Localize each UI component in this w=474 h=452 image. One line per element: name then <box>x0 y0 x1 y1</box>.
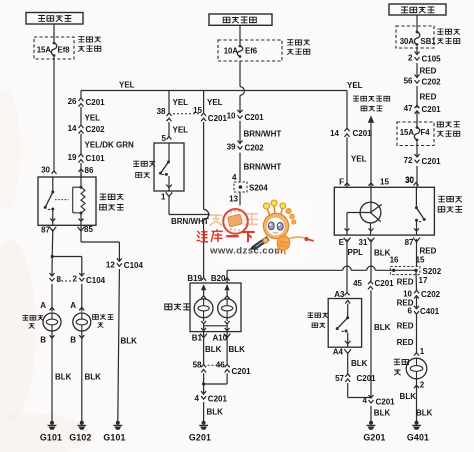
svg-text:G201: G201 <box>363 433 385 443</box>
svg-text:RED: RED <box>397 322 414 331</box>
svg-text:C101: C101 <box>86 154 106 163</box>
svg-text:1: 1 <box>161 193 166 202</box>
svg-text:30A: 30A <box>400 37 415 46</box>
svg-text:16: 16 <box>390 256 399 265</box>
svg-text:BLK: BLK <box>374 323 391 332</box>
svg-text:14: 14 <box>330 129 339 138</box>
svg-text:12: 12 <box>106 261 115 270</box>
svg-text:10A: 10A <box>224 47 239 56</box>
svg-text:87: 87 <box>405 238 414 247</box>
svg-text:A10: A10 <box>213 333 228 342</box>
svg-text:Ef6: Ef6 <box>245 47 258 56</box>
svg-text:56: 56 <box>404 76 413 85</box>
svg-text:C201: C201 <box>357 374 377 383</box>
svg-text:G401: G401 <box>407 433 429 443</box>
svg-text:B20: B20 <box>211 274 226 283</box>
svg-text:YEL: YEL <box>173 126 189 135</box>
svg-text:C201: C201 <box>245 113 265 122</box>
svg-text:YEL: YEL <box>347 81 363 90</box>
svg-text:2: 2 <box>408 53 413 62</box>
svg-text:BLK: BLK <box>55 373 72 382</box>
svg-text:BLK: BLK <box>207 408 224 417</box>
svg-text:Ef8: Ef8 <box>58 46 71 55</box>
svg-text:BLK: BLK <box>400 392 417 401</box>
svg-text:PPL: PPL <box>348 248 364 257</box>
svg-text:E: E <box>339 238 345 247</box>
svg-text:2: 2 <box>73 275 78 284</box>
svg-text:A: A <box>40 301 46 310</box>
svg-text:G201: G201 <box>189 433 211 443</box>
svg-text:B: B <box>70 336 76 345</box>
svg-text:C201: C201 <box>232 367 252 376</box>
svg-text:BLK: BLK <box>351 359 368 368</box>
svg-text:YEL: YEL <box>173 98 189 107</box>
svg-text:BLK: BLK <box>374 249 391 258</box>
svg-text:YEL: YEL <box>119 81 135 90</box>
svg-text:BLK: BLK <box>205 345 222 354</box>
svg-text:G101: G101 <box>40 433 62 443</box>
svg-text:8: 8 <box>57 275 62 284</box>
svg-text:C401: C401 <box>420 307 440 316</box>
svg-text:BLK: BLK <box>416 409 433 418</box>
svg-text:C201: C201 <box>208 114 228 123</box>
svg-text:15: 15 <box>380 177 389 186</box>
svg-text:C201: C201 <box>353 129 373 138</box>
svg-text:SB1: SB1 <box>421 37 437 46</box>
svg-text:15A: 15A <box>37 46 52 55</box>
svg-text:30: 30 <box>41 165 50 174</box>
svg-text:13: 13 <box>229 195 238 204</box>
svg-text:6: 6 <box>408 307 413 316</box>
svg-text:45: 45 <box>353 279 362 288</box>
svg-text:BLK: BLK <box>121 337 138 346</box>
svg-text:15A: 15A <box>400 128 415 137</box>
svg-text:BLK: BLK <box>85 373 102 382</box>
svg-text:C202: C202 <box>245 144 265 153</box>
svg-text:A: A <box>70 301 76 310</box>
svg-text:S204: S204 <box>249 184 268 193</box>
svg-text:26: 26 <box>68 97 77 106</box>
svg-text:C201: C201 <box>86 98 106 107</box>
svg-text:BRN/WHT: BRN/WHT <box>244 130 282 139</box>
svg-text:BLK: BLK <box>374 409 391 418</box>
svg-text:4: 4 <box>195 394 200 403</box>
svg-text:4: 4 <box>363 396 368 405</box>
svg-text:B: B <box>40 336 46 345</box>
svg-text:B1: B1 <box>192 333 203 342</box>
svg-text:31: 31 <box>359 238 368 247</box>
svg-text:S202: S202 <box>423 267 442 276</box>
svg-text:4: 4 <box>232 173 237 182</box>
svg-text:RED: RED <box>420 67 437 76</box>
svg-text:RED: RED <box>397 338 414 347</box>
svg-text:BLK: BLK <box>229 345 246 354</box>
svg-text:YEL: YEL <box>351 155 367 164</box>
svg-text:F4: F4 <box>421 128 431 137</box>
svg-text:C105: C105 <box>422 55 442 64</box>
svg-text:47: 47 <box>404 104 413 113</box>
svg-text:C104: C104 <box>124 261 144 270</box>
svg-text:G101: G101 <box>103 433 125 443</box>
svg-text:58: 58 <box>193 360 202 369</box>
svg-text:C201: C201 <box>376 397 396 406</box>
svg-text:BRN/WHT: BRN/WHT <box>244 163 282 172</box>
svg-text:10: 10 <box>403 290 412 299</box>
svg-text:39: 39 <box>227 142 236 151</box>
svg-text:19: 19 <box>68 153 77 162</box>
svg-text:14: 14 <box>68 124 77 133</box>
svg-text:17: 17 <box>419 276 428 285</box>
svg-text:30: 30 <box>405 176 414 185</box>
svg-text:38: 38 <box>157 107 166 116</box>
svg-text:C202: C202 <box>422 78 442 87</box>
svg-text:5: 5 <box>162 134 167 143</box>
svg-text:RED: RED <box>420 247 437 256</box>
svg-text:C202: C202 <box>86 125 106 134</box>
svg-text:G102: G102 <box>69 433 91 443</box>
svg-text:72: 72 <box>404 156 413 165</box>
svg-text:C201: C201 <box>422 105 442 114</box>
svg-text:A3: A3 <box>334 290 345 299</box>
svg-text:A4: A4 <box>333 348 344 357</box>
svg-text:1: 1 <box>420 347 425 356</box>
svg-text:www.dzsc.com: www.dzsc.com <box>209 246 283 257</box>
svg-text:RED: RED <box>420 93 437 102</box>
svg-text:B19: B19 <box>187 274 202 283</box>
svg-text:15: 15 <box>416 256 425 265</box>
svg-text:86: 86 <box>85 166 94 175</box>
svg-text:2: 2 <box>420 381 425 390</box>
svg-text:C104: C104 <box>86 276 106 285</box>
svg-text:RED: RED <box>397 278 414 287</box>
svg-text:F: F <box>339 177 344 186</box>
svg-text:57: 57 <box>335 374 344 383</box>
svg-text:C201: C201 <box>208 394 228 403</box>
svg-text:YEL/DK GRN: YEL/DK GRN <box>85 141 135 150</box>
svg-text:10: 10 <box>227 112 236 121</box>
svg-text:C201: C201 <box>375 279 395 288</box>
svg-text:85: 85 <box>84 225 93 234</box>
svg-text:C201: C201 <box>422 157 442 166</box>
svg-text:YEL: YEL <box>85 114 101 123</box>
svg-text:87: 87 <box>41 225 50 234</box>
svg-text:YEL: YEL <box>207 98 223 107</box>
svg-text:C202: C202 <box>421 290 441 299</box>
